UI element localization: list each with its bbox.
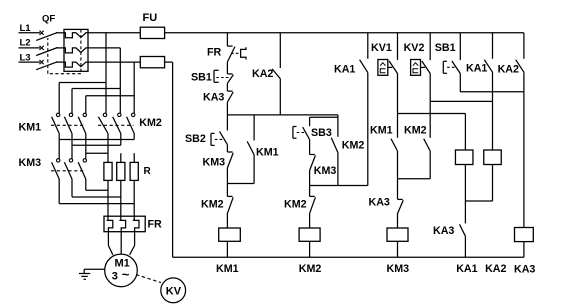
wire node Hb <box>430 100 492 102</box>
wire KM3 pole 2 feed <box>71 145 73 159</box>
svg-text:KA3: KA3 <box>514 263 535 275</box>
svg-text:KA2: KA2 <box>485 263 506 275</box>
fuse FU2 <box>140 57 164 68</box>
wire phase node 1 bus <box>59 139 134 141</box>
breaker QF pole 1 blade <box>36 32 57 40</box>
breaker QF release 1 <box>64 33 88 38</box>
wire KA3 coil to bottom bus <box>523 242 525 258</box>
wire KM1 pole 2 feed <box>71 89 73 114</box>
wire KM1 coil to bottom bus <box>226 241 228 257</box>
wire control left rail <box>172 62 174 257</box>
wire junction bus <box>227 114 338 116</box>
contactor KM3 pole 1 <box>58 158 60 160</box>
breaker QF body <box>64 29 88 71</box>
thermal relay FR heater 1 <box>107 216 113 236</box>
wire jog to KM1 pole 3 <box>86 95 134 97</box>
svg-text:KM2: KM2 <box>404 125 427 137</box>
wire node Ha <box>460 91 524 93</box>
wire SB3 tee <box>310 116 338 118</box>
svg-text:KV1: KV1 <box>371 42 392 54</box>
wire KA2 coil out <box>492 165 494 202</box>
breaker QF pole 2 blade <box>36 48 57 56</box>
svg-text:KA3: KA3 <box>203 91 224 103</box>
wire motor feed 2 <box>120 236 122 254</box>
wire KV2 branch <box>429 74 431 138</box>
contact KM2 (NC, rung2) <box>309 186 311 197</box>
coil KM1 <box>219 228 241 241</box>
coil KA3 <box>515 228 534 242</box>
coil KA1 <box>455 150 473 165</box>
breaker QF release 3 <box>64 62 88 67</box>
wire phase node 2 bus <box>72 144 121 146</box>
contact KV1 <box>397 33 399 60</box>
contactor KM2 linkage <box>98 124 134 126</box>
contact KV2 <box>429 33 431 60</box>
contact KM3 (NC, rung2) <box>310 154 315 156</box>
svg-text:KM3: KM3 <box>203 156 226 168</box>
contactor KM3 pole 3 <box>85 158 87 160</box>
wire motor to ground <box>84 268 105 270</box>
wire phase node 3 bus <box>86 152 108 154</box>
wire KM3 to rejoin <box>226 168 228 184</box>
wire row3 QF to FU2 <box>88 61 140 63</box>
wire phase C drop <box>133 62 135 113</box>
contactor KM2 pole 1 <box>105 112 107 114</box>
svg-text:KV: KV <box>166 285 182 297</box>
svg-text:KV2: KV2 <box>404 42 425 54</box>
wire L1 input <box>19 32 41 34</box>
contact KA1 <box>367 33 369 59</box>
contact KA2 (right rail) <box>523 33 525 59</box>
resistor R1 <box>104 162 112 180</box>
contact KA3 (KA return) <box>464 201 466 223</box>
wire rung1 rejoin <box>227 183 254 185</box>
wire R3 top <box>133 153 135 162</box>
svg-text:KA3: KA3 <box>433 225 454 237</box>
svg-text:KA1: KA1 <box>456 263 477 275</box>
contactor KM1 pole 3 <box>85 112 87 114</box>
svg-text:KM3: KM3 <box>314 165 337 177</box>
contact KM2 aux <box>331 138 338 153</box>
wire junction corner down <box>337 115 339 137</box>
wire R2 top <box>120 153 122 162</box>
wire KA1 coil feed <box>464 114 466 151</box>
wire R3 bottom <box>133 180 135 216</box>
svg-text:FR: FR <box>207 47 222 59</box>
fuse FU1 <box>140 27 164 38</box>
wire SB1 to KA3 <box>226 83 228 91</box>
contactor KM1 linkage <box>51 124 85 126</box>
relay KV link (dashed) <box>136 275 161 283</box>
wire branch1 top <box>226 33 228 46</box>
relay KV <box>161 278 186 303</box>
wire KA2 coil feed <box>492 101 494 150</box>
wire KM3 pole 2 rejoin <box>72 196 121 198</box>
wire L3 input <box>19 61 41 63</box>
wire KV1 branch <box>397 74 399 138</box>
svg-text:KM2: KM2 <box>299 263 322 275</box>
svg-text:KM1: KM1 <box>216 263 239 275</box>
coil KA2 <box>484 150 502 165</box>
svg-text:KA1: KA1 <box>466 62 487 74</box>
svg-text:KM1: KM1 <box>370 125 393 137</box>
contact KA3 (branch1) <box>227 90 232 92</box>
wire R1 bottom <box>107 180 109 216</box>
breaker QF linkage (dashed) <box>80 29 82 73</box>
wire jog to KM1 pole 1 <box>59 82 106 84</box>
thermal relay FR heater 2 <box>119 216 125 236</box>
resistor R3 <box>130 162 138 180</box>
svg-text:R: R <box>144 166 152 177</box>
wire KM2 pole2 out <box>120 134 122 146</box>
resistor R2 <box>117 162 125 180</box>
wire KM3 pole 2 out <box>71 179 73 197</box>
svg-text:KM2: KM2 <box>284 199 307 211</box>
contactor KM3 pole 2 <box>71 158 73 160</box>
thermal relay FR heater 3 <box>133 216 139 236</box>
svg-text:QF: QF <box>42 13 55 24</box>
svg-text:SB1: SB1 <box>435 42 456 54</box>
svg-text:FU: FU <box>143 12 158 24</box>
wire SB2 to KM3 <box>226 145 228 152</box>
contact FR thermal hook <box>231 52 240 54</box>
wire KM3 pole 1 rejoin <box>59 203 134 205</box>
svg-text:KA2: KA2 <box>498 64 519 76</box>
svg-text:KM1: KM1 <box>19 122 42 134</box>
contact KA2 <box>279 33 281 68</box>
wire KM1 pole 1 feed <box>58 83 60 114</box>
button SB3 (NO) <box>303 127 310 140</box>
contact KA3 (rung3) <box>397 179 399 200</box>
wire QF pole 3 lead <box>56 61 64 63</box>
wire SB3 top <box>309 117 311 126</box>
wire KM2 coil to bottom bus <box>309 241 311 257</box>
wire L2 input <box>19 47 41 49</box>
contactor KM3 linkage <box>51 170 85 172</box>
contactor KM2 pole 2 <box>119 112 121 114</box>
wire KA3 to junction bus <box>226 102 228 115</box>
svg-text:L2: L2 <box>20 38 31 49</box>
thermal relay FR body <box>104 216 145 232</box>
wire KM1 pole2 out <box>71 134 73 146</box>
wire KA coils join <box>465 200 492 202</box>
wire rung2 rejoin <box>310 185 368 187</box>
svg-text:KA3: KA3 <box>369 197 390 209</box>
wire KM3 coil to bottom bus <box>397 241 399 257</box>
svg-text:KM2: KM2 <box>201 198 224 210</box>
wire right rail <box>523 72 525 227</box>
wire phase A drop <box>105 33 107 113</box>
wire motor feed 3 <box>134 236 136 246</box>
svg-text:SB1: SB1 <box>191 71 212 83</box>
wire phase B drop <box>119 48 121 113</box>
wire jog to KM1 pole 2 <box>72 88 120 90</box>
wire rung3 rejoin <box>398 178 431 180</box>
wire KA1 coil out <box>464 165 466 202</box>
wire KM3 to rejoin <box>309 171 311 186</box>
wire row1 QF to FU1 <box>88 32 140 34</box>
wire control bottom bus <box>173 256 524 258</box>
breaker QF pole 2 cross mark <box>40 46 44 50</box>
button SB1 (NO, right) <box>459 33 461 60</box>
button SB1 (NC) <box>227 73 232 75</box>
wire row2 QF out <box>88 47 120 49</box>
wire KM3 pole 3 feed <box>85 153 87 159</box>
wire KM2 pole1 out <box>107 134 109 154</box>
wire node Hc <box>398 113 466 115</box>
ground <box>83 269 85 273</box>
breaker QF pole 3 blade <box>36 62 57 70</box>
wire KM3 pole 3 rejoin <box>86 189 108 191</box>
svg-text:SB3: SB3 <box>311 127 332 139</box>
contact KM2 (rung3) <box>424 139 431 151</box>
svg-text:L1: L1 <box>20 23 32 34</box>
wire motor feed 1 <box>107 236 109 246</box>
svg-text:KM2: KM2 <box>342 140 365 152</box>
svg-text:KM2: KM2 <box>139 117 162 129</box>
contactor KM1 pole 2 <box>71 112 73 114</box>
contactor KM1 pole 1 <box>58 112 60 114</box>
svg-text:KA1: KA1 <box>334 63 355 75</box>
contact KA1 (right) <box>492 33 494 59</box>
motor M1 <box>105 254 138 287</box>
svg-text:KM3: KM3 <box>19 157 42 169</box>
wire FR to SB1 <box>226 62 228 74</box>
svg-text:KA2: KA2 <box>252 68 273 80</box>
svg-text:KM1: KM1 <box>256 147 279 159</box>
svg-text:KM3: KM3 <box>387 263 410 275</box>
wire control top bus <box>165 32 524 34</box>
wire KM1 pole3 out <box>85 134 87 154</box>
wire FU2 to left rail <box>165 61 173 63</box>
wire KM2 pole3 out <box>133 134 135 140</box>
wire R2 bottom <box>120 180 122 216</box>
wire KM1 pole1 out <box>58 134 60 140</box>
svg-text:~: ~ <box>122 267 130 282</box>
wire QF pole 1 lead <box>56 32 64 34</box>
wire KM1 pole 3 feed <box>85 96 87 114</box>
contact KM2 (NC interlock, rung1) <box>226 184 228 197</box>
wire SB3 to KM3 <box>309 140 311 155</box>
breaker QF pole 1 cross mark <box>40 31 44 35</box>
coil KM2 <box>299 228 320 241</box>
breaker QF pole 3 cross mark <box>40 60 44 64</box>
contact KM3 (NC, rung1) <box>227 151 232 153</box>
breaker QF release 2 <box>64 48 88 53</box>
contact KM1 (rung3) <box>391 139 398 151</box>
wire KM3 pole 1 feed <box>58 140 60 159</box>
button SB2 (NO) <box>226 115 228 131</box>
wire KM3 pole 3 out <box>85 179 87 190</box>
svg-text:SB2: SB2 <box>185 133 206 145</box>
wire R1 top <box>107 153 109 162</box>
svg-text:FR: FR <box>148 219 163 231</box>
contactor KM2 pole 3 <box>133 112 135 114</box>
coil KM3 <box>387 228 408 241</box>
svg-text:3: 3 <box>112 271 118 283</box>
contact KM1 aux <box>253 115 255 141</box>
wire KM3 pole 1 out <box>58 179 60 204</box>
contact FR (NC, thermal) <box>227 45 232 47</box>
wire QF pole 2 lead <box>56 47 64 49</box>
